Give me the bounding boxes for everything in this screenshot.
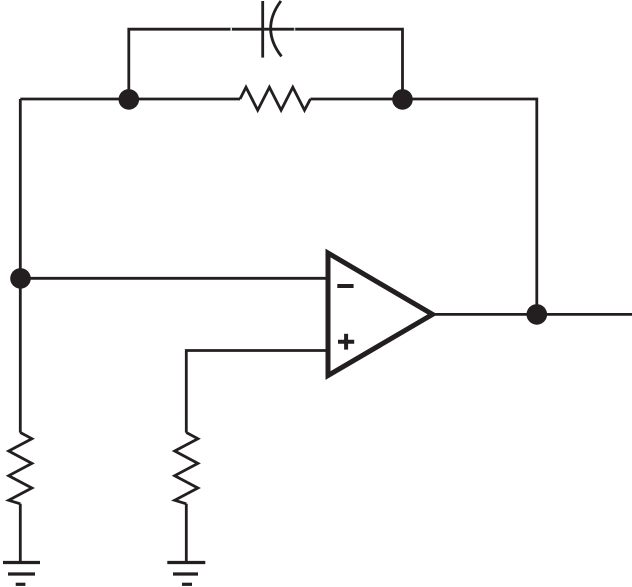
wire: R2 to ground [19, 504, 22, 563]
op-amp U1 triangle [328, 253, 433, 376]
node: output junction dot [527, 304, 548, 325]
op-amp U1 inverting pin label (minus) [337, 284, 353, 288]
node: inverting input junction dot [10, 268, 31, 289]
wire: R3 to ground [185, 504, 188, 563]
node: junction dot left of C1/R1 [119, 89, 140, 110]
wire: right node to output (over the top and down) [403, 99, 537, 314]
wire: inverting input row [20, 277, 326, 280]
wire notch artifact right of C1 [294, 28, 296, 31]
capacitor C1 curved plate [271, 1, 282, 57]
resistor R1 (feedback, horizontal zigzag) [240, 87, 310, 110]
ground symbol (left) [3, 563, 40, 585]
capacitor C1 flat plate [261, 1, 264, 58]
ground symbol (middle) [167, 563, 205, 585]
wire notch artifact left of C1 [230, 28, 232, 31]
wire: feedback row left segment (inverting node to R1) [20, 98, 240, 101]
wire: op-amp output [433, 313, 632, 316]
wire: feedback row right segment (R1 to right node) [310, 98, 402, 101]
node: junction dot right of C1/R1 [392, 89, 413, 110]
wire: capacitor branch (up, across top, down) [129, 29, 403, 99]
wire: non-inverting input row and middle column [186, 351, 326, 433]
wire: left column lower (inverting node down to R2) [19, 278, 22, 432]
wire: left column upper (feedback row down to inverting node) [19, 99, 22, 278]
resistor R3 (middle, vertical zigzag) [175, 433, 198, 504]
resistor R2 (left, vertical zigzag) [9, 433, 32, 504]
op-amp U1 non-inverting pin label (plus) [338, 334, 354, 350]
